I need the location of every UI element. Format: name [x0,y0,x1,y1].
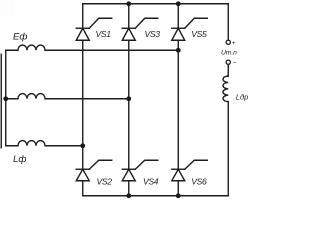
svg-text:VS5: VS5 [191,29,207,39]
wire right column down [227,102,229,196]
svg-text:Eф: Eф [13,31,27,42]
wire leg1 upper [82,4,84,29]
wire phase 2 with inductor Lf [6,94,129,99]
svg-text:VS2: VS2 [97,177,113,187]
svg-text:VS4: VS4 [143,177,159,187]
wire leg3 lower [177,181,179,196]
svg-text:VS6: VS6 [191,177,207,187]
junction node phase3 leg1 [80,143,85,148]
svg-text:Lф: Lф [13,154,26,165]
svg-text:Lдp: Lдp [236,93,249,102]
wire top rail [83,3,229,5]
source bus left plate [0,54,2,148]
wire leg3 upper [177,4,179,29]
svg-text:VS3: VS3 [145,29,161,39]
thyristor VS3 [122,18,158,40]
junction node bottom rail leg2 [126,193,131,198]
terminal plus [226,40,230,44]
wire phase 3 with inductor Lf [6,141,83,146]
wire leg3 middle [177,40,179,169]
wire leg2 middle [128,40,130,169]
junction node top rail leg2 [126,1,131,6]
wire leg1 lower [82,181,84,196]
source bus right plate [5,50,7,146]
svg-text:VS1: VS1 [96,29,112,39]
svg-text:−: − [233,60,237,67]
svg-text:+: + [232,40,236,47]
thyristor VS2 [76,160,112,181]
junction node top rail leg3 [176,1,181,6]
thyristor VS1 [76,18,112,40]
thyristor VS6 [172,160,208,181]
wire bottom rail [83,195,229,197]
thyristor VS4 [122,160,158,181]
junction node phase1 leg3 [176,48,181,53]
wire stub below minus terminal [227,64,229,76]
junction node phase2 at bus [3,96,8,101]
junction node bottom rail leg3 [176,193,181,198]
junction node phase2 leg2 [126,96,131,101]
wire leg1 middle [82,40,84,169]
svg-text:Um.n: Um.n [221,49,237,56]
inductor Ldr [223,76,228,102]
terminal minus [226,60,230,64]
thyristor VS5 [172,18,208,40]
wire right drop to plus terminal [227,4,229,40]
wire leg2 lower [128,181,130,196]
wire leg2 upper [128,4,130,29]
wire phase 1 with inductor Lf [6,45,179,50]
